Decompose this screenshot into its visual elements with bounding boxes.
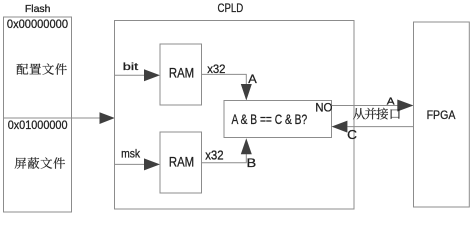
svg-text:0x00000000: 0x00000000: [7, 17, 68, 31]
arrowhead C into comparator: [332, 121, 348, 133]
svg-text:A: A: [387, 97, 395, 108]
svg-text:bit: bit: [123, 62, 139, 73]
svg-text:C: C: [347, 128, 357, 142]
wire A from RAM1 to comparator: [202, 74, 247, 85]
separator line inside Flash: [4, 117, 72, 119]
svg-text:A & B == C & B?: A & B == C & B?: [232, 112, 308, 127]
FPGA box: [414, 22, 470, 207]
wire B from RAM2 to comparator: [202, 154, 247, 163]
CPLD box: [115, 21, 355, 210]
wire Flash to CPLD: [72, 117, 102, 119]
comparator box: [224, 101, 332, 138]
arrowhead A down into comparator: [241, 84, 252, 101]
arrowhead bit into RAM1: [144, 69, 160, 81]
RAM box 2: [160, 132, 202, 193]
label 屏蔽文件 (mask file): [15, 157, 65, 168]
svg-text:x32: x32: [205, 147, 223, 162]
svg-text:FPGA: FPGA: [427, 108, 456, 122]
arrowhead A into FPGA: [397, 100, 413, 112]
svg-text:RAM: RAM: [169, 155, 194, 170]
arrowhead msk into RAM2: [144, 158, 160, 170]
svg-text:RAM: RAM: [169, 66, 194, 81]
Flash memory box: [4, 17, 72, 212]
wire msk: [115, 163, 146, 165]
RAM box 1: [160, 44, 202, 105]
svg-text:B: B: [247, 156, 257, 170]
svg-text:x32: x32: [207, 62, 226, 76]
svg-text:msk: msk: [121, 147, 141, 161]
wire NO output to FPGA: [332, 105, 399, 107]
arrowhead B up into comparator: [241, 138, 252, 154]
svg-text:NO: NO: [315, 101, 332, 115]
wire bit: [115, 74, 146, 76]
label 配置文件 (config file): [17, 63, 67, 74]
svg-text:Flash: Flash: [25, 4, 51, 15]
svg-text:A: A: [248, 72, 257, 86]
label 从并接口 (slave parallel interface): [353, 108, 400, 120]
svg-text:CPLD: CPLD: [218, 1, 244, 15]
svg-text:0x01000000: 0x01000000: [8, 118, 68, 132]
arrowhead Flash to CPLD: [100, 112, 115, 124]
wire C from FPGA: [347, 126, 413, 128]
